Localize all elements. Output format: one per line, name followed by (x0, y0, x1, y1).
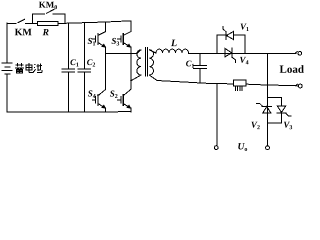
svg-text:R: R (42, 28, 49, 38)
svg-text:L: L (170, 38, 177, 49)
svg-text:Load: Load (280, 64, 304, 76)
svg-text:KM: KM (15, 27, 33, 38)
